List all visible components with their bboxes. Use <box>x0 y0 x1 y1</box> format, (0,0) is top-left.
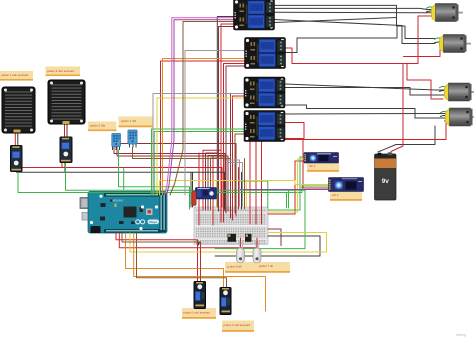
svg-text:vdr 1: vdr 1 <box>332 193 339 197</box>
svg-text:potion 1 soil sensord: potion 1 soil sensord <box>184 311 211 315</box>
svg-text:vdr 1: vdr 1 <box>309 164 316 168</box>
svg-text:Mega: Mega <box>149 220 157 224</box>
svg-text:9v: 9v <box>382 178 390 185</box>
svg-text:potion 7 tilt: potion 7 tilt <box>259 264 273 268</box>
svg-text:potion 1 rain sensord: potion 1 rain sensord <box>1 73 28 77</box>
svg-text:potion 7 dht: potion 7 dht <box>121 119 136 123</box>
svg-text:ARDUINO: ARDUINO <box>112 200 123 203</box>
svg-text:potion 2 soil sensord: potion 2 soil sensord <box>224 323 251 327</box>
svg-text:potion 2 dht: potion 2 dht <box>90 124 105 128</box>
svg-text:potion 5 tilt: potion 5 tilt <box>228 265 242 269</box>
svg-text:fritzing: fritzing <box>456 333 466 337</box>
svg-text:potion 3 rain sensord: potion 3 rain sensord <box>47 69 74 73</box>
